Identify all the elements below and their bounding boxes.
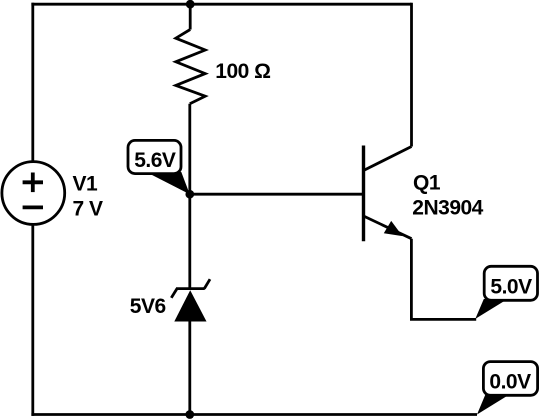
svg-text:5V6: 5V6 [130, 295, 166, 318]
wire emitter horizontal to 5.0V probe [410, 318, 476, 321]
svg-text:5.6V: 5.6V [134, 149, 176, 172]
wire top rail [31, 3, 411, 6]
probe callout 5.0V text [490, 276, 532, 299]
value label 2N3904 [412, 197, 483, 220]
wire base [190, 193, 362, 196]
wire left lower segment [31, 224, 34, 416]
voltage source V1 circle [2, 162, 65, 225]
probe callout 5.6V tail [146, 172, 190, 194]
probe callout 0.0V box [483, 362, 537, 396]
transistor Q1 collector diagonal [364, 147, 412, 171]
transistor Q1 base bar [362, 146, 365, 242]
probe callout 5.6V box [128, 140, 181, 173]
svg-text:2N3904: 2N3904 [412, 197, 483, 220]
svg-text:5.0V: 5.0V [490, 276, 532, 299]
svg-text:100 Ω: 100 Ω [215, 60, 270, 83]
probe callout 5.0V tail [475, 299, 507, 319]
svg-text:7 V: 7 V [73, 198, 104, 221]
wire resistor bottom lead to base node [188, 104, 191, 195]
label Q1 [413, 172, 441, 195]
resistor R (100 ohm) zigzag [176, 30, 205, 104]
node bottom junction dot [185, 410, 194, 419]
svg-text:V1: V1 [73, 173, 99, 196]
wire left upper segment [31, 3, 34, 162]
probe callout 5.6V text [134, 149, 176, 172]
probe callout 5.0V box [484, 266, 537, 300]
zener diode D1 right bent tip [204, 279, 210, 288]
value label 100 Ω [215, 60, 270, 83]
node base junction dot [185, 190, 194, 199]
probe callout 0.0V text [489, 370, 531, 393]
wire zener top lead [188, 194, 191, 290]
value label 5V6 [130, 295, 166, 318]
label V1 [73, 173, 99, 196]
value label 7 V [73, 198, 104, 221]
node top junction dot [186, 0, 195, 9]
zener diode D1 triangle [174, 290, 206, 321]
transistor Q1 emitter arrowhead [384, 221, 403, 236]
wire emitter vertical [410, 239, 413, 320]
transistor Q1 emitter diagonal [364, 216, 412, 239]
zener diode D1 left bent tip [171, 289, 177, 298]
probe callout 0.0V tail [477, 394, 511, 415]
wire bottom rail [31, 413, 477, 416]
svg-text:Q1: Q1 [413, 172, 441, 195]
voltage source V1 minus sign [23, 205, 43, 209]
voltage source V1 plus sign [23, 173, 43, 193]
wire collector vertical from top rail [410, 3, 413, 147]
wire zener bottom lead [188, 321, 191, 416]
svg-text:0.0V: 0.0V [489, 370, 531, 393]
zener diode D1 cathode bar [176, 287, 205, 290]
wire resistor top lead [189, 4, 192, 29]
